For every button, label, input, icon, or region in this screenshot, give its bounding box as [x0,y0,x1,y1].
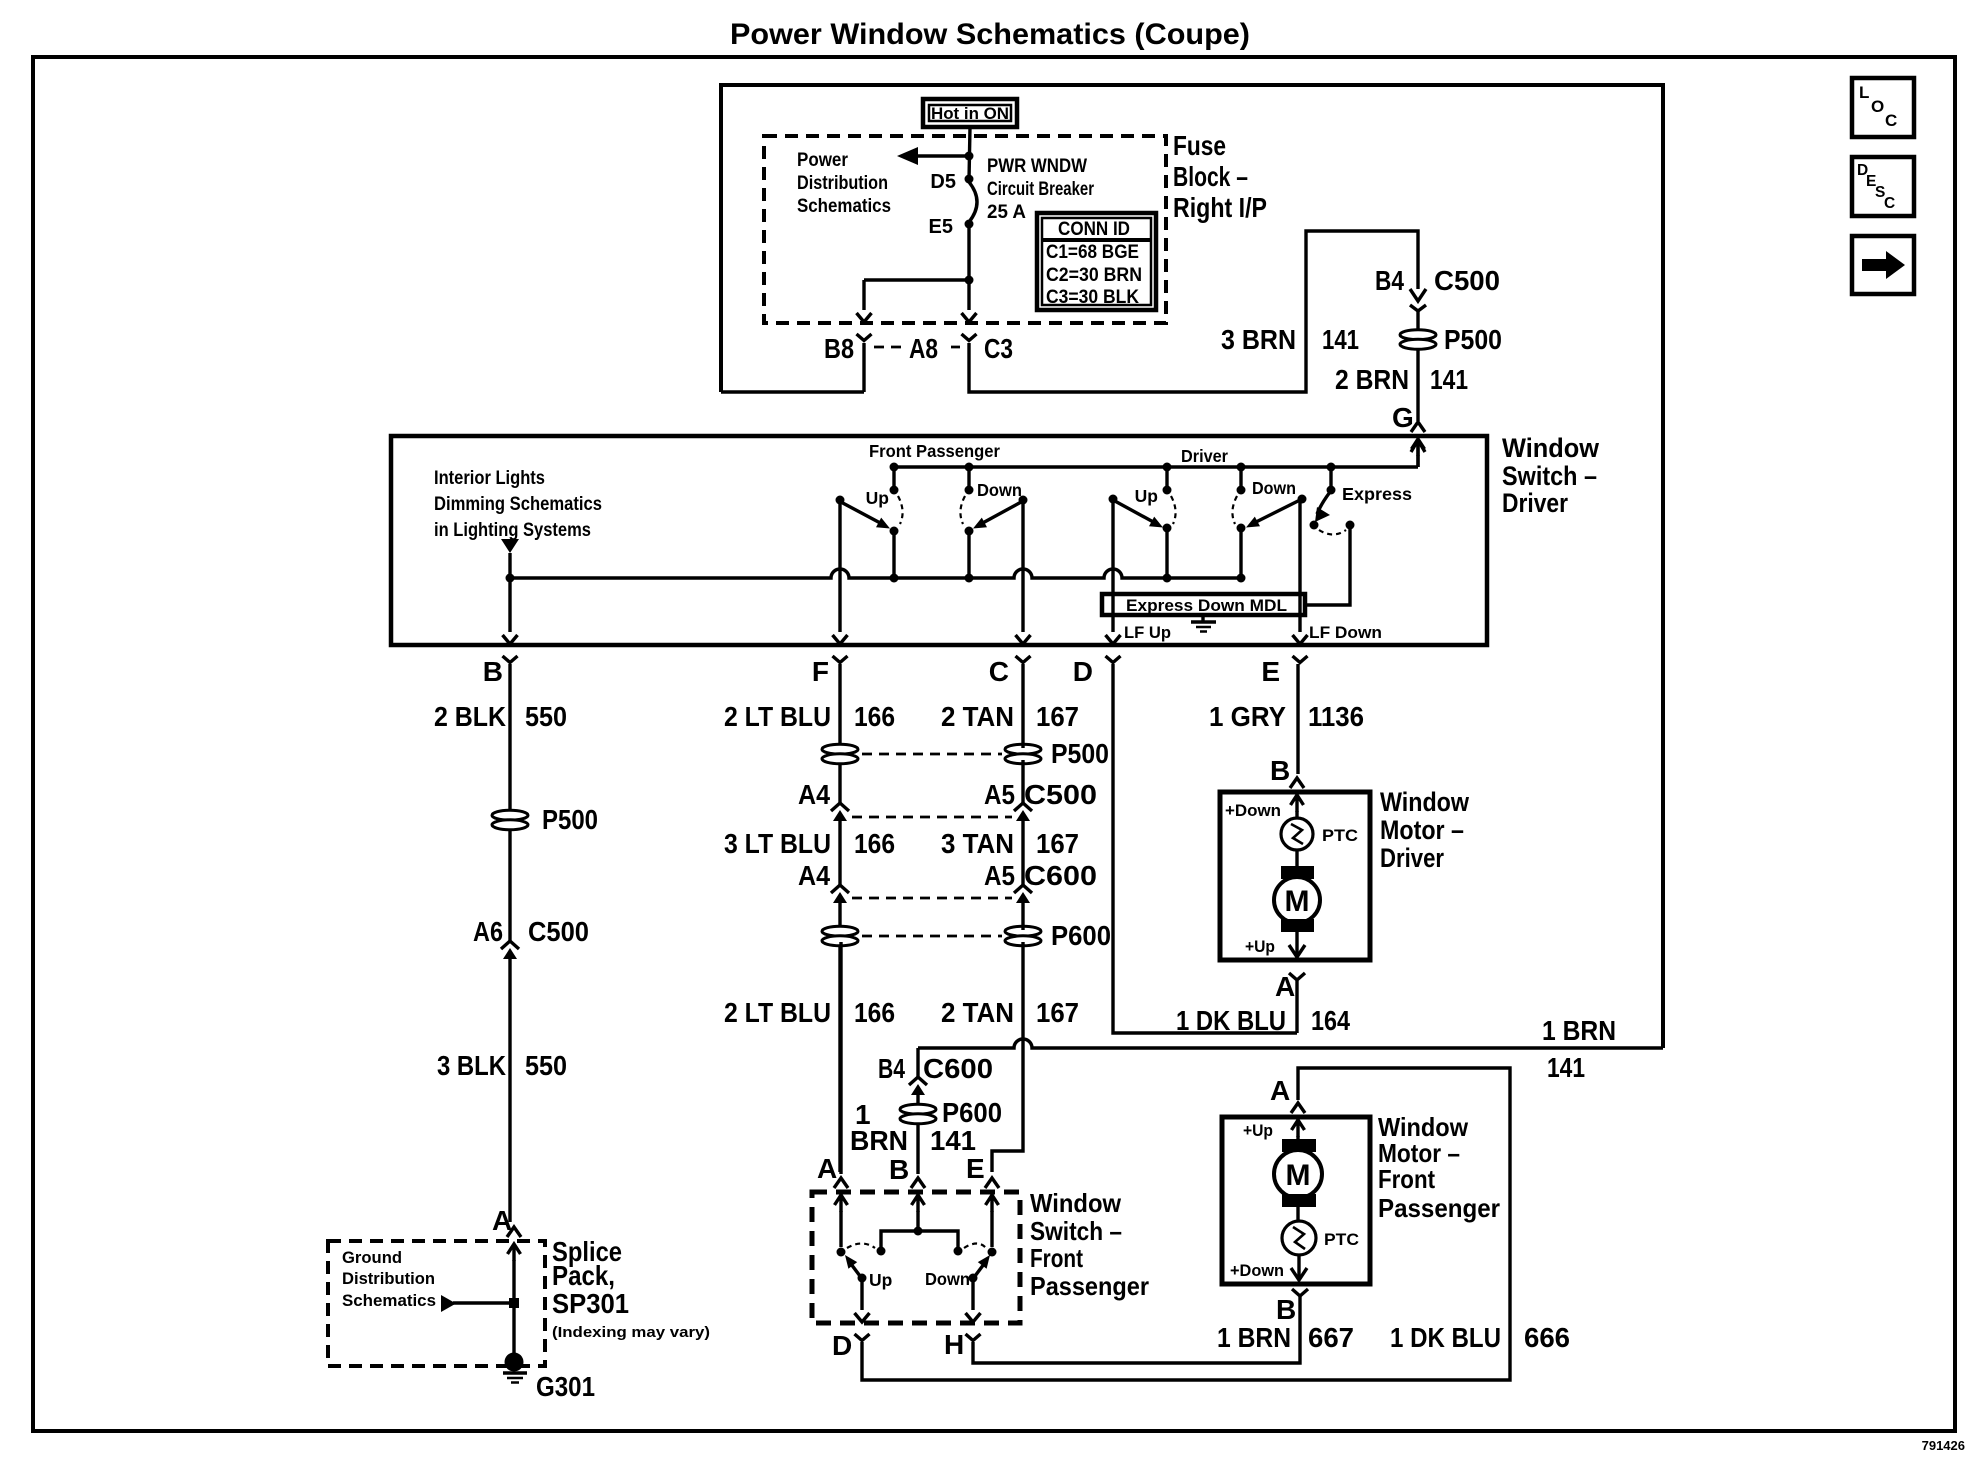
svg-text:C2=30 BRN: C2=30 BRN [1046,265,1142,286]
svg-text:C: C [1884,195,1895,212]
svg-text:Hot in ON: Hot in ON [931,104,1009,123]
svg-text:B: B [1270,755,1290,786]
svg-text:D5: D5 [930,171,956,193]
svg-text:E: E [966,1153,985,1184]
svg-text:Down: Down [1252,478,1296,498]
svg-text:+Down: +Down [1225,802,1281,820]
svg-text:791426: 791426 [1922,1438,1965,1453]
svg-text:Ground: Ground [342,1248,402,1267]
svg-text:Passenger: Passenger [1030,1271,1149,1301]
svg-text:550: 550 [525,701,567,732]
svg-text:Down: Down [925,1269,970,1289]
svg-text:B4: B4 [1375,265,1404,296]
svg-text:C600: C600 [1024,860,1097,891]
svg-text:B8: B8 [824,333,854,364]
svg-text:1 GRY: 1 GRY [1209,701,1286,732]
svg-text:C: C [989,656,1009,687]
svg-text:3 BRN: 3 BRN [1221,324,1296,355]
svg-text:Driver: Driver [1502,488,1568,518]
svg-text:164: 164 [1311,1005,1350,1036]
svg-text:667: 667 [1308,1322,1354,1353]
svg-text:G301: G301 [536,1371,595,1402]
svg-text:666: 666 [1524,1322,1570,1353]
svg-text:Interior Lights: Interior Lights [434,468,545,489]
svg-text:Power Window Schematics (Coupe: Power Window Schematics (Coupe) [730,18,1250,51]
svg-text:A: A [817,1153,837,1184]
svg-text:Front: Front [1030,1243,1083,1273]
svg-text:2 TAN: 2 TAN [941,701,1014,732]
svg-text:Block –: Block – [1173,161,1248,192]
svg-text:167: 167 [1036,701,1079,732]
svg-text:B4: B4 [878,1053,905,1084]
svg-text:P500: P500 [1444,324,1502,355]
svg-text:F: F [812,656,829,687]
svg-text:P500: P500 [542,804,598,835]
svg-text:PTC: PTC [1324,1231,1359,1249]
svg-text:A: A [1275,971,1295,1002]
svg-text:C500: C500 [1024,779,1097,810]
svg-text:2 LT BLU: 2 LT BLU [724,701,831,732]
svg-text:Window: Window [1030,1188,1122,1218]
svg-text:167: 167 [1036,828,1079,859]
svg-text:C: C [1885,111,1897,130]
svg-text:L: L [1859,83,1869,102]
svg-text:2 LT BLU: 2 LT BLU [724,997,831,1028]
svg-text:1 DK BLU: 1 DK BLU [1176,1005,1286,1036]
svg-text:P500: P500 [1051,738,1109,769]
svg-text:Distribution: Distribution [342,1269,435,1288]
svg-text:B: B [889,1154,909,1185]
svg-text:Schematics: Schematics [797,196,891,217]
svg-text:Window: Window [1502,433,1600,463]
svg-text:Driver: Driver [1181,446,1228,466]
svg-text:CONN ID: CONN ID [1058,219,1130,240]
svg-text:Up: Up [869,1270,892,1290]
svg-text:2 BRN: 2 BRN [1335,364,1409,395]
svg-text:141: 141 [1322,324,1359,355]
svg-text:Down: Down [977,480,1022,500]
svg-text:Driver: Driver [1380,843,1444,873]
svg-text:C500: C500 [1434,265,1500,296]
svg-text:PWR WNDW: PWR WNDW [987,156,1087,177]
svg-text:D: D [832,1330,852,1361]
svg-text:2 BLK: 2 BLK [434,701,506,732]
svg-text:166: 166 [854,828,895,859]
svg-text:Express: Express [1342,484,1412,504]
svg-text:P600: P600 [1051,920,1111,951]
svg-text:A8: A8 [909,333,938,364]
svg-text:166: 166 [854,701,895,732]
svg-text:A5: A5 [984,779,1015,810]
svg-text:A5: A5 [984,860,1015,891]
svg-text:Schematics: Schematics [342,1291,436,1310]
svg-text:A6: A6 [473,916,503,947]
svg-text:LF Up: LF Up [1124,623,1171,642]
svg-text:Right I/P: Right I/P [1173,192,1267,223]
svg-text:3 BLK: 3 BLK [437,1050,506,1081]
svg-text:P600: P600 [942,1097,1002,1128]
svg-text:H: H [944,1329,964,1360]
svg-text:M: M [1285,885,1310,918]
svg-text:25 A: 25 A [987,202,1026,223]
svg-text:Distribution: Distribution [797,173,888,194]
svg-text:Dimming Schematics: Dimming Schematics [434,494,602,515]
svg-text:E5: E5 [929,216,953,238]
svg-text:+Up: +Up [1245,938,1275,956]
svg-text:C3: C3 [984,333,1013,364]
svg-text:A: A [1270,1075,1290,1106]
svg-text:Passenger: Passenger [1378,1193,1500,1223]
svg-text:Up: Up [866,488,889,508]
svg-text:1 BRN: 1 BRN [1542,1015,1616,1046]
svg-text:B: B [483,656,503,687]
svg-text:C1=68 BGE: C1=68 BGE [1046,242,1139,263]
svg-text:3 LT BLU: 3 LT BLU [724,828,831,859]
svg-text:Motor –: Motor – [1380,815,1464,845]
svg-text:141: 141 [1430,364,1468,395]
svg-text:Circuit Breaker: Circuit Breaker [987,179,1094,200]
svg-text:1136: 1136 [1308,701,1364,732]
svg-text:D: D [1073,656,1093,687]
svg-text:C600: C600 [923,1053,993,1084]
svg-text:Switch –: Switch – [1502,461,1597,491]
svg-text:2 TAN: 2 TAN [941,997,1014,1028]
svg-text:3 TAN: 3 TAN [941,828,1014,859]
svg-text:Fuse: Fuse [1173,130,1226,161]
svg-text:+Up: +Up [1243,1122,1273,1140]
svg-text:(Indexing may vary): (Indexing may vary) [552,1324,710,1341]
svg-text:A4: A4 [798,779,830,810]
svg-text:C3=30 BLK: C3=30 BLK [1046,287,1139,308]
svg-text:A: A [492,1205,512,1236]
svg-text:Front: Front [1378,1164,1435,1194]
svg-text:141: 141 [1547,1052,1585,1083]
svg-text:Pack,: Pack, [552,1260,615,1291]
svg-text:E: E [1261,656,1280,687]
svg-text:167: 167 [1036,997,1079,1028]
svg-text:Front Passenger: Front Passenger [869,441,1000,461]
svg-text:1 BRN: 1 BRN [1217,1322,1291,1353]
svg-text:M: M [1286,1159,1311,1192]
svg-text:PTC: PTC [1322,827,1358,845]
svg-text:1 DK BLU: 1 DK BLU [1390,1322,1501,1353]
svg-text:B: B [1276,1294,1296,1325]
svg-text:in Lighting Systems: in Lighting Systems [434,520,591,541]
svg-text:Power: Power [797,150,849,171]
svg-text:166: 166 [854,997,895,1028]
svg-text:A4: A4 [798,860,830,891]
svg-text:Up: Up [1135,486,1158,506]
svg-text:+Down: +Down [1230,1262,1284,1280]
svg-text:G: G [1392,402,1414,433]
svg-text:LF Down: LF Down [1309,623,1382,642]
svg-text:Window: Window [1380,787,1470,817]
svg-text:C500: C500 [528,916,589,947]
svg-text:Switch –: Switch – [1030,1216,1122,1246]
svg-text:Express Down MDL: Express Down MDL [1126,596,1287,615]
svg-text:550: 550 [525,1050,567,1081]
svg-text:141: 141 [930,1125,976,1156]
svg-text:BRN: BRN [850,1125,908,1156]
svg-text:O: O [1871,97,1884,116]
svg-text:SP301: SP301 [552,1288,629,1319]
